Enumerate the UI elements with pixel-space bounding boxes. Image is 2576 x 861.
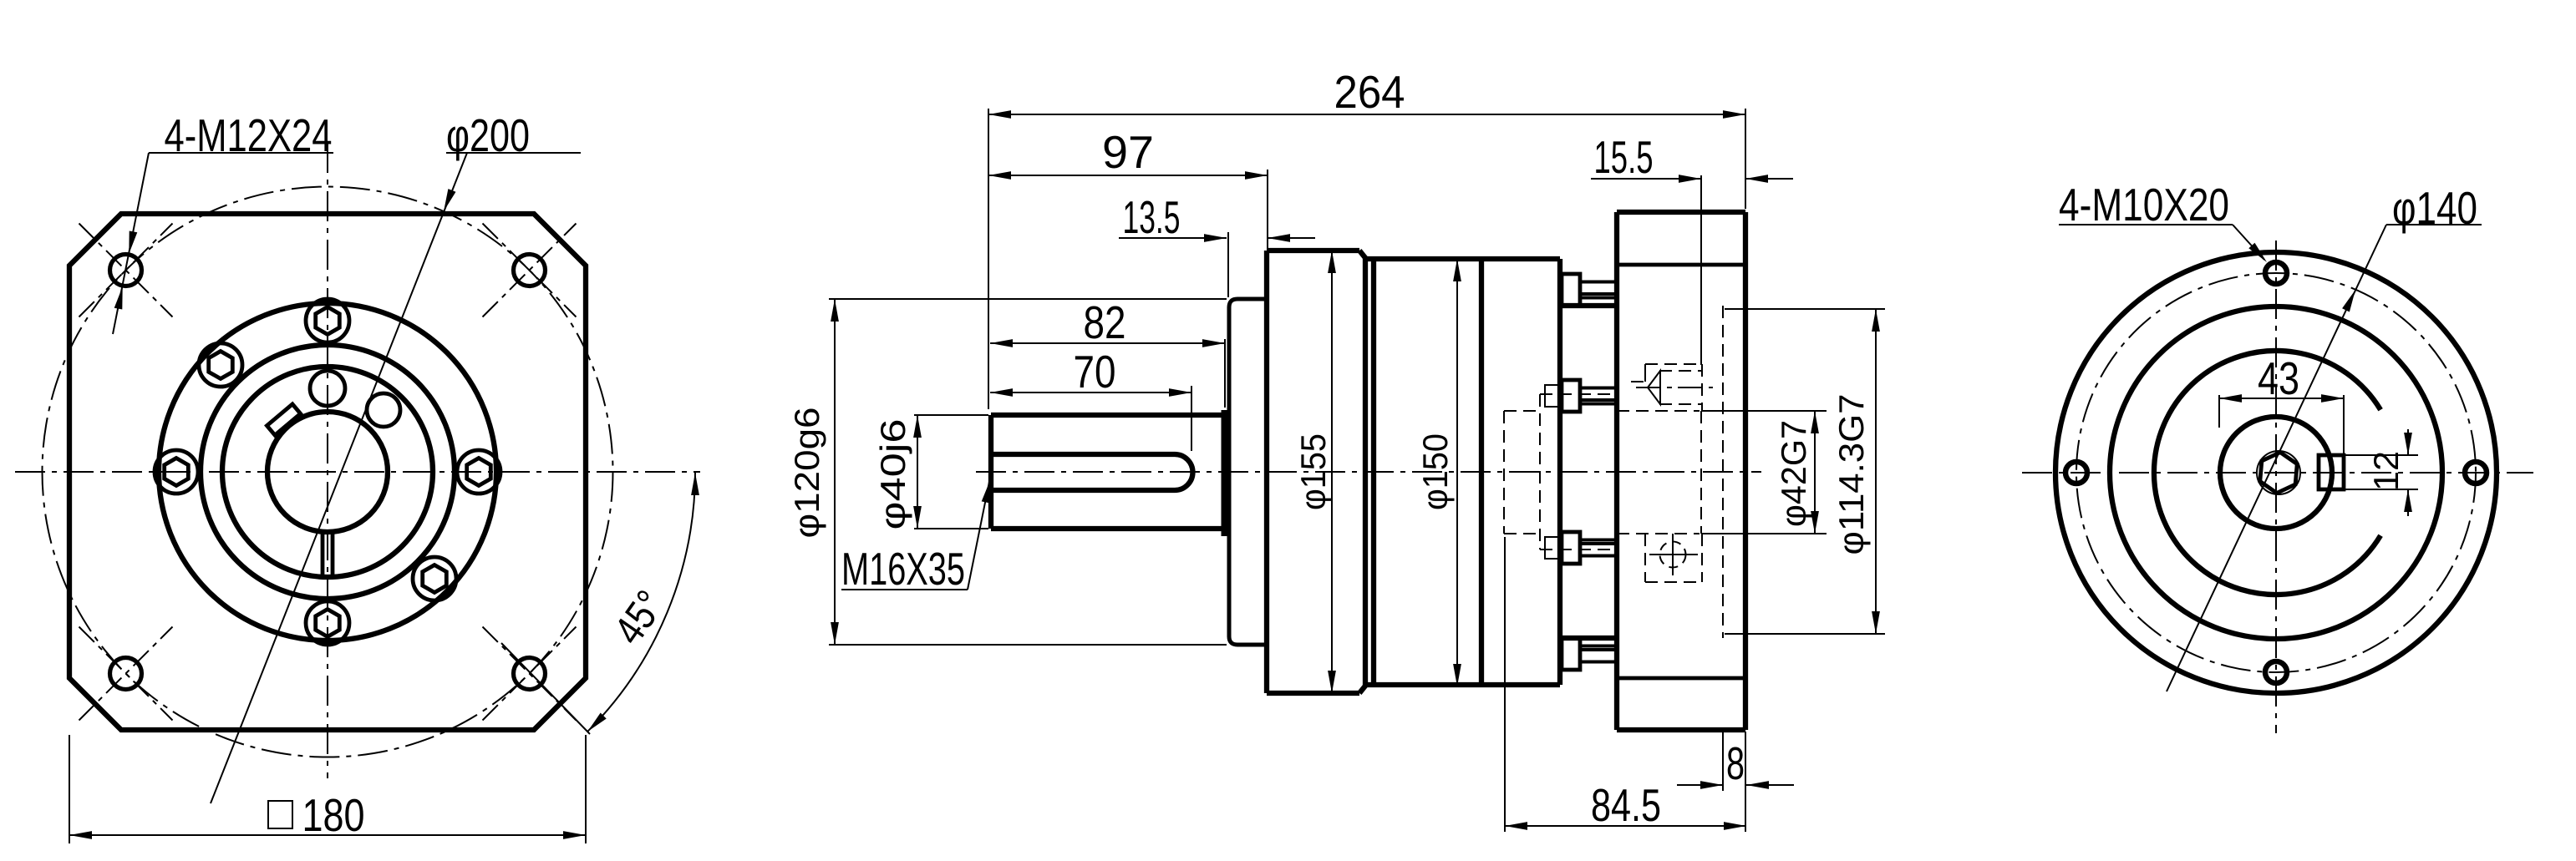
- svg-text:82: 82: [1084, 296, 1126, 348]
- svg-text:φ140: φ140: [2392, 182, 2477, 234]
- svg-text:φ42G7: φ42G7: [1774, 420, 1813, 527]
- svg-text:φ120g6: φ120g6: [787, 408, 826, 539]
- svg-text:97: 97: [1102, 126, 1154, 178]
- svg-text:84.5: 84.5: [1591, 779, 1661, 831]
- svg-text:φ150: φ150: [1415, 433, 1455, 510]
- svg-text:13.5: 13.5: [1123, 191, 1181, 243]
- svg-text:180: 180: [302, 789, 365, 841]
- svg-text:φ114.3G7: φ114.3G7: [1832, 394, 1871, 555]
- svg-text:φ155: φ155: [1293, 433, 1333, 510]
- svg-text:φ40j6: φ40j6: [873, 419, 912, 530]
- svg-text:43: 43: [2258, 352, 2299, 404]
- svg-text:264: 264: [1334, 66, 1405, 118]
- svg-text:8: 8: [1726, 737, 1745, 789]
- svg-text:12: 12: [2366, 451, 2406, 491]
- svg-text:4-M10X20: 4-M10X20: [2059, 179, 2229, 230]
- svg-text:70: 70: [1074, 346, 1116, 398]
- svg-text:M16X35: M16X35: [841, 543, 965, 595]
- svg-text:15.5: 15.5: [1594, 131, 1654, 183]
